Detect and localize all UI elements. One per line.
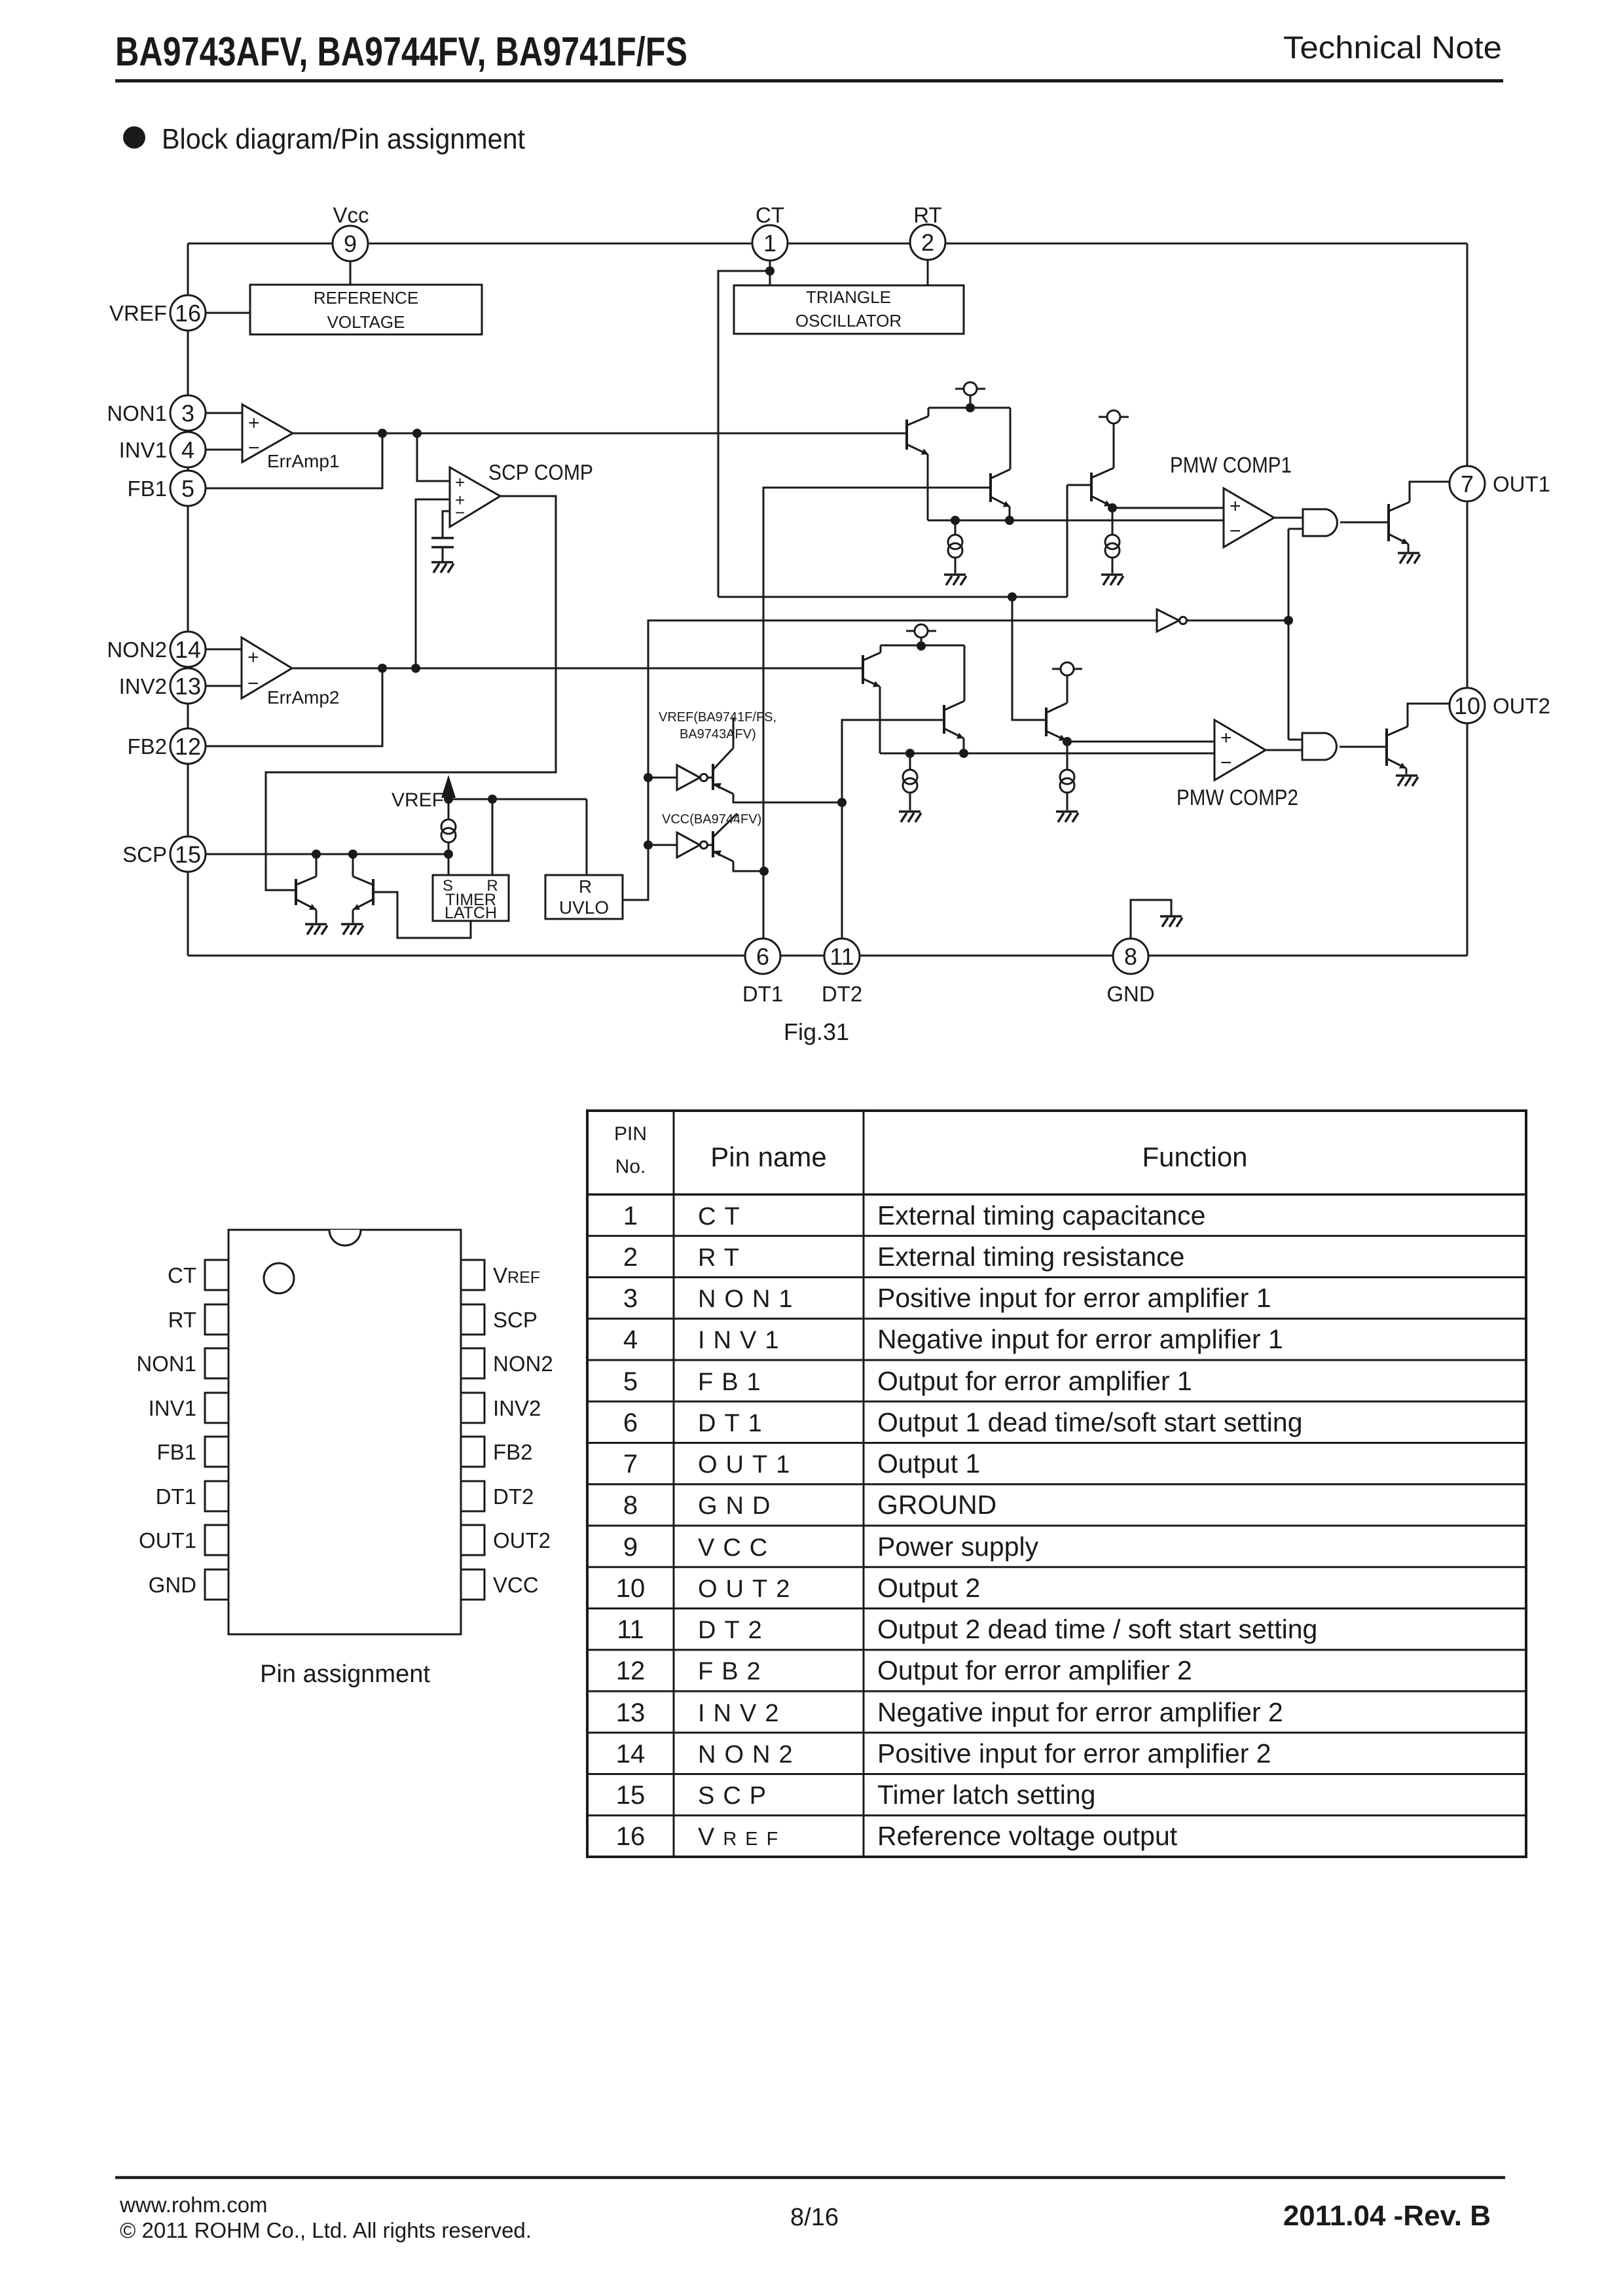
inverter U4 (output enable): [1157, 609, 1187, 632]
svg-text:15: 15: [175, 841, 201, 868]
ground (ramp 1): [1101, 575, 1123, 585]
svg-text:11: 11: [617, 1615, 644, 1644]
svg-text:2: 2: [623, 1243, 638, 1272]
svg-text:RT: RT: [913, 203, 941, 227]
svg-text:© 2011 ROHM Co., Ltd. All rig: © 2011 ROHM Co., Ltd. All rights reserve…: [120, 2218, 532, 2242]
section heading: Block diagram/Pin assignment: [123, 123, 525, 155]
svg-text:OSCILLATOR: OSCILLATOR: [795, 311, 902, 331]
svg-text:OUT1: OUT1: [1493, 472, 1550, 496]
svg-text:4: 4: [181, 437, 194, 463]
comparator PMW COMP1: [1170, 453, 1292, 547]
svg-text:VOLTAGE: VOLTAGE: [327, 312, 405, 332]
svg-text:13: 13: [616, 1698, 646, 1727]
svg-text:FB1: FB1: [698, 1369, 769, 1396]
svg-text:BA9743AFV): BA9743AFV): [680, 727, 756, 742]
triangle oscillator block: [734, 285, 964, 334]
UVLO block: [545, 875, 623, 919]
ground (Q12 emitter): [1396, 776, 1418, 786]
wire: pin14 to ErrAmp2 + input: [206, 649, 242, 651]
current source (ramp 2): [1060, 742, 1074, 810]
svg-text:DT1: DT1: [742, 982, 783, 1006]
pin function table frame: [587, 1111, 1526, 1857]
svg-text:1: 1: [623, 1202, 638, 1230]
wire: DT1 riser (pin6): [763, 488, 991, 956]
svg-text:Positive input for error ampli: Positive input for error amplifier 2: [877, 1738, 1271, 1768]
table row pin 2 RT: [587, 1236, 1526, 1272]
table row pin 5 FB1: [587, 1360, 1526, 1396]
pin 3 NON1: [107, 395, 206, 431]
svg-text:Output for error amplifier 1: Output for error amplifier 1: [877, 1366, 1192, 1396]
table row pin 8 GND: [587, 1484, 1526, 1520]
wire: tap to VREF inverter: [648, 777, 677, 779]
svg-text:NON1: NON1: [136, 1352, 196, 1376]
page header title: [115, 29, 687, 75]
table row pin 12 FB2: [587, 1650, 1526, 1685]
node: mirror supply 1: [966, 403, 975, 412]
table row pin 6 DT1: [587, 1401, 1526, 1437]
package body (Pin assignment): [228, 1230, 461, 1634]
svg-text:FB1: FB1: [156, 1440, 196, 1464]
pin 7 OUT1: [1450, 466, 1550, 501]
footer page number: [790, 2204, 839, 2231]
table row pin 7 OUT1: [587, 1443, 1526, 1479]
wire: PWM COMP1 plus input: [1112, 507, 1224, 509]
node: ErrAmp2 output / FB2: [378, 664, 387, 673]
transistor Q12 (OUT2 driver): [1387, 704, 1451, 774]
package pin 10 (OUT2): [461, 1525, 551, 1555]
svg-text:VCC: VCC: [698, 1534, 776, 1562]
svg-text:+: +: [455, 473, 465, 492]
current source (SCP soft start): [441, 799, 456, 854]
table row pin 10 OUT2: [587, 1567, 1526, 1603]
ground (Q2 emitter): [341, 924, 363, 935]
wire: down to timer latch R input: [492, 799, 494, 875]
pin 12 FB2: [127, 728, 206, 764]
svg-text:RT: RT: [168, 1308, 196, 1332]
package pin 5 (FB1): [156, 1437, 228, 1467]
package pin 2 (RT): [168, 1304, 228, 1335]
wire: FB2 feedback loop: [206, 668, 382, 746]
ground hook at GND pin: [1131, 900, 1182, 938]
wire: VREF node to UVLO riser: [448, 799, 587, 875]
package pin 11 (DT2): [461, 1481, 534, 1511]
svg-text:Technical Note: Technical Note: [1283, 31, 1502, 65]
VREF supply arrow (soft start source): [392, 775, 456, 811]
AND gate G1: [1303, 509, 1337, 536]
svg-text:INV2: INV2: [493, 1396, 541, 1420]
wire: pin3 to ErrAmp1 + input: [206, 412, 242, 414]
svg-text:Reference voltage output: Reference voltage output: [877, 1821, 1178, 1851]
pin 13 INV2: [119, 668, 206, 704]
svg-text:10: 10: [1454, 692, 1480, 719]
package pin 7 (OUT1): [139, 1525, 228, 1555]
svg-text:UVLO: UVLO: [559, 897, 609, 918]
node: ErrAmp2 output / SCP tap: [411, 664, 420, 673]
svg-text:14: 14: [616, 1740, 646, 1768]
transistor Q10 (PWM COMP2 dead time input): [944, 645, 964, 753]
wire: CT ramp to PWM COMP1 transistor base: [1067, 485, 1091, 597]
transistor Q5 (PWM COMP1 signal input): [907, 408, 928, 520]
svg-text:15: 15: [616, 1781, 646, 1810]
svg-text:LATCH: LATCH: [445, 904, 497, 922]
footer rule: [115, 2176, 1505, 2179]
svg-text:−: −: [1230, 520, 1241, 542]
svg-text:+: +: [1220, 727, 1232, 749]
node: comparator1 minus rail: [1005, 516, 1014, 525]
svg-text:14: 14: [175, 636, 201, 663]
node: SCP / timer latch S: [444, 850, 453, 859]
node: Q4 emitter to DT1 riser: [759, 867, 769, 876]
svg-text:INV1: INV1: [698, 1327, 787, 1354]
wire: CT signal to PWM COMP2 ramp transistor: [718, 597, 1067, 720]
svg-text:CT: CT: [168, 1263, 196, 1287]
pin 11 DT2: [822, 939, 862, 1006]
wire: mirror top rail 1: [928, 407, 1010, 409]
pin 1 CT: [752, 203, 788, 260]
svg-text:OUT2: OUT2: [698, 1575, 798, 1603]
svg-text:CT: CT: [756, 203, 784, 227]
svg-text:VREF: VREF: [392, 789, 444, 811]
supply terminal (PWM COMP2 mirror): [906, 624, 936, 645]
wire: SCP COMP output to timer latch: [266, 496, 556, 890]
package pin 16 (VREF): [461, 1260, 540, 1290]
svg-text:ErrAmp1: ErrAmp1: [267, 451, 339, 471]
IC boundary left rail: [187, 243, 189, 956]
svg-text:FB2: FB2: [698, 1658, 769, 1685]
svg-text:ErrAmp2: ErrAmp2: [267, 687, 339, 708]
svg-text:+: +: [1230, 495, 1241, 517]
node: comparator2 minus rail: [959, 749, 968, 758]
svg-text:OUT2: OUT2: [1493, 694, 1550, 718]
pin 9 VCC: [333, 203, 369, 261]
svg-text:INV2: INV2: [698, 1700, 787, 1727]
table row pin 11 DT2: [587, 1609, 1526, 1645]
wire: pin2 to triangle oscillator: [927, 259, 929, 285]
supply terminal (PWM COMP1 ramp): [1099, 410, 1129, 468]
package pin 13 (INV2): [461, 1393, 541, 1423]
svg-text:PMW COMP2: PMW COMP2: [1176, 785, 1298, 810]
transistor Q7 (PWM COMP1 ramp): [1091, 468, 1114, 507]
transistor Q2 (SCP latch): [353, 854, 373, 923]
node: ramp wire tap: [1008, 592, 1017, 601]
inverter U2 (VREF clamp): [677, 765, 708, 790]
svg-text:4: 4: [623, 1325, 638, 1354]
transistor Q3 (VREF clamp): [708, 717, 842, 802]
ground (Q8 emitter): [1398, 553, 1420, 564]
svg-text:Vcc: Vcc: [333, 203, 369, 227]
svg-text:INV1: INV1: [149, 1396, 196, 1420]
svg-text:Negative input for error ampli: Negative input for error amplifier 2: [877, 1697, 1283, 1727]
svg-text:NON1: NON1: [698, 1285, 801, 1313]
svg-text:Output 2: Output 2: [877, 1573, 980, 1603]
svg-text:OUT1: OUT1: [698, 1451, 798, 1479]
svg-text:9: 9: [344, 230, 357, 257]
supply terminal (PWM COMP2 ramp): [1052, 662, 1082, 703]
table row pin 4 INV1: [587, 1319, 1526, 1354]
op-amp SCP COMP: [450, 460, 593, 527]
svg-text:3: 3: [623, 1284, 638, 1313]
wire: pin15 SCP to timer latch S input: [206, 853, 448, 855]
svg-text:9: 9: [623, 1533, 638, 1562]
wire: SCP COMP - input to capacitor: [443, 511, 450, 538]
svg-text:CT: CT: [698, 1203, 748, 1230]
svg-text:SCP: SCP: [122, 842, 167, 867]
transistor Q4 (VCC clamp): [708, 814, 764, 871]
svg-text:+: +: [247, 647, 259, 668]
node: AND gate feed: [1284, 616, 1293, 625]
svg-text:FB2: FB2: [127, 734, 167, 759]
wire: ErrAmp1 output to SCP COMP first + input: [417, 433, 450, 481]
node: comparator1 plus: [1108, 503, 1117, 512]
wire: PWM COMP1 minus rail: [928, 520, 1224, 522]
svg-text:5: 5: [623, 1367, 638, 1396]
svg-text:VREF: VREF: [109, 301, 167, 325]
page header right: Technical Note: [1283, 31, 1502, 65]
node: tail 1: [951, 516, 960, 525]
wire: G1 output to Q8 base: [1340, 522, 1389, 524]
svg-text:GND: GND: [698, 1492, 778, 1520]
svg-text:DT2: DT2: [698, 1617, 771, 1644]
svg-text:Output 1: Output 1: [877, 1448, 980, 1479]
label: VCC(BA9744FV): [662, 812, 761, 827]
svg-text:DT2: DT2: [822, 982, 862, 1006]
svg-text:7: 7: [1461, 471, 1474, 497]
table row pin 9 VCC: [587, 1526, 1526, 1562]
node: tail 2: [905, 749, 915, 758]
inverter U3 (VCC clamp): [677, 833, 708, 857]
package pin 14 (NON2): [461, 1348, 553, 1378]
wire: PWM COMP2 minus rail: [880, 753, 1214, 755]
svg-text:Pin name: Pin name: [710, 1141, 826, 1172]
svg-text:8: 8: [623, 1491, 638, 1520]
svg-text:PMW COMP1: PMW COMP1: [1170, 453, 1292, 478]
svg-text:NON2: NON2: [698, 1741, 801, 1768]
wire: pin4 to ErrAmp1 - input: [206, 449, 242, 451]
svg-text:SCP COMP: SCP COMP: [488, 460, 593, 484]
svg-text:Function: Function: [1142, 1141, 1247, 1172]
wire: inverter output to AND gates: [1187, 529, 1303, 740]
IC boundary right rail: [1467, 243, 1468, 956]
svg-text:INV1: INV1: [119, 438, 167, 462]
node: inverter 2 tap: [644, 840, 653, 850]
reference voltage block: [250, 285, 482, 334]
svg-text:GROUND: GROUND: [877, 1490, 996, 1520]
svg-text:2: 2: [921, 229, 934, 256]
footer revision: [1283, 2200, 1491, 2232]
package pin 3 (NON1): [136, 1348, 228, 1378]
svg-text:6: 6: [756, 943, 769, 970]
wire: pin9 to reference voltage box: [350, 261, 352, 285]
transistor Q6 (PWM COMP1 dead time input): [991, 408, 1010, 520]
svg-text:NON1: NON1: [107, 401, 167, 425]
svg-text:External timing capacitance: External timing capacitance: [877, 1200, 1205, 1230]
wire: ErrAmp2 output to PWM COMP2 input transistor base: [292, 668, 863, 670]
svg-text:7: 7: [623, 1450, 638, 1479]
table row pin 14 NON2: [587, 1732, 1526, 1768]
svg-text:NON2: NON2: [107, 637, 167, 662]
pin 2 RT: [910, 203, 945, 260]
package pin 9 (VCC): [461, 1570, 539, 1600]
svg-text:GND: GND: [1106, 982, 1154, 1006]
svg-text:12: 12: [616, 1657, 646, 1685]
wire: CT riser to PWM comparator 2 input stage: [718, 271, 770, 597]
capacitor (SCP COMP threshold): [431, 538, 454, 562]
header rule: [115, 79, 1503, 82]
ground (mirror 1 tail): [944, 575, 966, 585]
wire: Q2 base to timer latch output: [373, 892, 471, 938]
svg-text:VCC: VCC: [493, 1573, 539, 1597]
svg-text:13: 13: [175, 673, 201, 700]
table row pin 16 VREF: [587, 1816, 1526, 1851]
svg-text:Positive input for error ampli: Positive input for error amplifier 1: [877, 1283, 1271, 1313]
AND gate G2: [1302, 733, 1336, 760]
svg-text:Power supply: Power supply: [877, 1532, 1039, 1562]
svg-text:VCC(BA9744FV): VCC(BA9744FV): [662, 812, 761, 827]
svg-text:−: −: [247, 673, 259, 694]
timer latch block: [433, 875, 509, 922]
IC boundary top rail (Vcc/CT/RT wire): [188, 243, 1467, 245]
svg-text:Output 2 dead time / soft star: Output 2 dead time / soft start setting: [877, 1614, 1317, 1644]
wire: FB1 feedback loop: [206, 433, 382, 488]
transistor Q9 (PWM COMP2 signal input): [863, 645, 881, 753]
svg-text:Output for error amplifier 2: Output for error amplifier 2: [877, 1655, 1192, 1685]
wire: comparator2 output to AND gate: [1266, 749, 1302, 751]
svg-text:8: 8: [1124, 943, 1137, 970]
pin 14 NON2: [107, 632, 206, 667]
svg-text:OUT1: OUT1: [139, 1528, 196, 1552]
svg-text:16: 16: [175, 300, 201, 327]
transistor Q11 (PWM COMP2 ramp): [1046, 703, 1067, 741]
svg-text:INV2: INV2: [119, 674, 167, 698]
svg-text:11: 11: [830, 943, 854, 970]
ground (ramp 2): [1056, 812, 1078, 822]
svg-text:1: 1: [763, 230, 776, 257]
svg-text:No.: No.: [615, 1156, 646, 1177]
node: VREF wire: [444, 795, 453, 804]
node: R input tap: [488, 795, 497, 804]
pin 10 OUT2: [1450, 688, 1550, 723]
svg-text:REFERENCE: REFERENCE: [314, 288, 418, 308]
svg-text:RT: RT: [698, 1244, 748, 1272]
svg-text:12: 12: [175, 733, 201, 760]
wire: ErrAmp1 output to PWM COMP1 input transistor base: [293, 433, 907, 435]
wire: UVLO output riser to inverter: [623, 620, 1157, 900]
package pin 12 (FB2): [461, 1437, 533, 1467]
wire: mirror top rail 2: [881, 645, 964, 647]
svg-text:SCP: SCP: [493, 1308, 538, 1332]
svg-text:Pin assignment: Pin assignment: [260, 1660, 430, 1688]
current source (mirror 1 tail): [948, 520, 962, 573]
svg-text:www.rohm.com: www.rohm.com: [119, 2193, 268, 2217]
current source (ramp 1): [1105, 508, 1120, 573]
wire: comparator1 output to AND gate: [1274, 517, 1303, 519]
svg-text:VREF(BA9741F/FS,: VREF(BA9741F/FS,: [659, 710, 776, 725]
transistor Q1 (SCP latch): [296, 854, 316, 923]
node: SCP / Q1 collector: [312, 850, 321, 859]
svg-text:DT2: DT2: [493, 1484, 534, 1509]
svg-text:−: −: [455, 503, 465, 522]
IC boundary bottom rail: [188, 955, 1467, 957]
svg-text:PIN: PIN: [614, 1123, 647, 1145]
svg-text:16: 16: [616, 1822, 646, 1851]
wire: pin1 to triangle oscillator: [769, 260, 771, 285]
op-amp ErrAmp2: [242, 637, 339, 708]
transistor Q8 (OUT1 driver): [1389, 482, 1450, 552]
svg-text:GND: GND: [149, 1573, 196, 1597]
ground (SCP COMP capacitor): [431, 562, 454, 573]
svg-text:OUT2: OUT2: [493, 1528, 551, 1552]
wire: pin13 to ErrAmp2 - input: [206, 685, 242, 687]
svg-text:+: +: [248, 412, 260, 434]
ground (Q1 emitter): [305, 924, 327, 935]
svg-text:Timer latch setting: Timer latch setting: [877, 1780, 1095, 1810]
node: comparator2 plus: [1063, 737, 1072, 746]
comparator PMW COMP2: [1176, 720, 1298, 810]
package caption: [260, 1660, 430, 1688]
wire: G2 output to Q12 base: [1340, 746, 1387, 748]
node: Q3 emitter to DT2 riser: [837, 798, 847, 807]
pin 8 GND: [1106, 939, 1154, 1006]
package pin 4 (INV1): [149, 1393, 228, 1423]
wire: PWM COMP2 plus input: [1067, 741, 1214, 743]
pin 16 VREF: [109, 295, 206, 331]
package pin 8 (GND): [149, 1570, 228, 1600]
node: SCP / Q2 collector: [348, 850, 357, 859]
svg-text:TRIANGLE: TRIANGLE: [806, 287, 891, 307]
table header: [614, 1123, 1248, 1177]
svg-text:FB2: FB2: [493, 1440, 533, 1464]
svg-text:DT1: DT1: [698, 1410, 771, 1437]
node: ErrAmp1 output / SCP COMP tap: [412, 429, 422, 438]
pin 4 INV1: [119, 432, 206, 467]
svg-text:10: 10: [616, 1574, 646, 1603]
table row pin 1 CT: [623, 1200, 1206, 1230]
pin 15 SCP: [122, 836, 206, 872]
pin 6 DT1: [742, 939, 783, 1006]
ground (mirror 2 tail): [899, 812, 921, 822]
svg-text:6: 6: [623, 1408, 638, 1437]
svg-text:2011.04 -Rev. B: 2011.04 -Rev. B: [1283, 2200, 1491, 2232]
package pin 1 (CT): [168, 1260, 228, 1290]
svg-text:FB1: FB1: [127, 476, 167, 501]
svg-text:External timing resistance: External timing resistance: [877, 1242, 1184, 1272]
figure caption: [784, 1018, 849, 1045]
svg-text:5: 5: [181, 475, 194, 502]
wire: pin16 to reference voltage box: [206, 312, 250, 314]
svg-text:Block diagram/Pin assignment: Block diagram/Pin assignment: [162, 123, 525, 155]
node: ErrAmp1 output / FB1: [378, 429, 387, 438]
package pin 15 (SCP): [461, 1304, 538, 1335]
pin 5 FB1: [127, 471, 206, 506]
wire: SCP junction down to timer latch S input: [448, 854, 450, 875]
svg-text:−: −: [1220, 752, 1232, 774]
op-amp ErrAmp1: [242, 404, 339, 471]
svg-text:−: −: [248, 437, 260, 459]
svg-text:BA9743AFV, BA9744FV, BA9741F/F: BA9743AFV, BA9744FV, BA9741F/FS: [115, 29, 687, 75]
node: inverter 1 tap: [644, 773, 653, 782]
table row pin 3 NON1: [587, 1278, 1526, 1314]
svg-text:SCP: SCP: [698, 1782, 775, 1810]
table row pin 15 SCP: [587, 1774, 1526, 1810]
supply terminal (PWM COMP1 mirror): [955, 382, 985, 407]
svg-text:DT1: DT1: [156, 1484, 196, 1509]
table row pin 13 INV2: [587, 1691, 1526, 1727]
wire: DT2 riser (pin11): [842, 720, 944, 956]
node: CT junction: [765, 266, 775, 276]
current source (mirror 2 tail): [903, 753, 917, 810]
svg-text:Negative input for error ampli: Negative input for error amplifier 1: [877, 1324, 1283, 1354]
label: VREF(BA9741F/FS, BA9743AFV): [659, 710, 776, 742]
